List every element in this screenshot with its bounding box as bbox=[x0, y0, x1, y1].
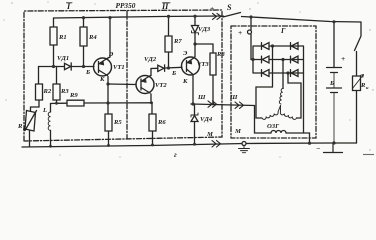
ground terminal bbox=[242, 142, 246, 146]
svg-text:н: н bbox=[366, 85, 369, 90]
wire VT1 collector junction bbox=[107, 84, 109, 103]
regulator box PP350 dash-dot border bbox=[24, 10, 222, 141]
scan speckles bbox=[3, 1, 373, 157]
bridge minus rail down bbox=[303, 73, 305, 133]
battery GB bbox=[327, 68, 342, 93]
wire VD1 row bbox=[39, 66, 95, 68]
svg-text:+: + bbox=[210, 4, 214, 13]
svg-text:R1: R1 bbox=[58, 34, 67, 41]
resistor R7 bbox=[165, 16, 172, 68]
node R8 Sh wire bbox=[212, 102, 215, 105]
label plus top bbox=[210, 4, 214, 13]
svg-text:Э: Э bbox=[109, 51, 114, 58]
diode D2 bbox=[262, 56, 270, 63]
transistor VT2 bbox=[136, 76, 154, 94]
svg-text:R6: R6 bbox=[157, 119, 166, 126]
svg-text:т: т bbox=[23, 126, 27, 131]
wire VD2 row bbox=[151, 67, 182, 68]
svg-text:VД3: VД3 bbox=[198, 26, 211, 33]
svg-text:К: К bbox=[182, 78, 188, 85]
transistor VT3 bbox=[182, 57, 200, 75]
chevron into generator bbox=[235, 102, 244, 108]
node VT1 emitter on bus bbox=[108, 16, 111, 19]
stator phase taps bbox=[256, 46, 273, 118]
wire Sh row bbox=[191, 104, 255, 106]
svg-text:+: + bbox=[238, 28, 242, 37]
thermistor Rт bbox=[31, 107, 40, 111]
zener VD3 bbox=[194, 16, 196, 25]
svg-text:РР350: РР350 bbox=[116, 1, 136, 10]
node R3 bottom bbox=[55, 102, 58, 105]
svg-text:R7: R7 bbox=[173, 38, 182, 45]
rectifier bridge frame bbox=[253, 46, 304, 73]
svg-text:Г: Г bbox=[280, 26, 286, 35]
svg-text:R9: R9 bbox=[69, 92, 78, 99]
svg-text:R8: R8 bbox=[216, 51, 225, 58]
svg-text:Б: Б bbox=[85, 69, 90, 76]
resistor R2 bbox=[36, 67, 43, 108]
diode D5 bbox=[291, 56, 299, 63]
svg-text:М: М bbox=[206, 131, 214, 138]
chevron M out regulator bbox=[212, 141, 221, 148]
svg-text:I: I bbox=[66, 2, 71, 11]
svg-text:VД2: VД2 bbox=[144, 56, 157, 63]
resistor R4 bbox=[80, 18, 87, 67]
svg-text:S: S bbox=[227, 3, 232, 12]
svg-text:Э: Э bbox=[183, 50, 188, 57]
zener VD4 bbox=[194, 104, 196, 115]
svg-text:R5: R5 bbox=[113, 119, 122, 126]
svg-text:R2: R2 bbox=[43, 88, 52, 95]
svg-text:г: г bbox=[174, 150, 177, 159]
node R4 base wire bbox=[82, 65, 85, 68]
svg-text:Б: Б bbox=[329, 80, 334, 87]
svg-text:Б: Б bbox=[171, 70, 176, 77]
resistor R6 bbox=[149, 103, 156, 145]
stator winding center coil bbox=[279, 88, 283, 104]
svg-text:VT1: VT1 bbox=[113, 64, 125, 71]
resistor R3 bbox=[53, 67, 60, 104]
chassis ground battery minus bbox=[324, 143, 343, 153]
chevron bus out regulator bbox=[213, 13, 222, 19]
diode VD2 bbox=[158, 65, 165, 72]
svg-text:VД1: VД1 bbox=[57, 55, 69, 62]
field winding OZG wire bbox=[255, 106, 272, 134]
svg-text:VД4: VД4 bbox=[200, 116, 213, 123]
transistor VT1 bbox=[94, 58, 112, 76]
node R7 VT3 base wire bbox=[167, 66, 170, 69]
node M battery bbox=[332, 141, 335, 144]
diode VD1 bbox=[65, 63, 72, 70]
resistor R5 bbox=[105, 103, 112, 146]
load switch bbox=[355, 22, 362, 76]
chevron out regulator bbox=[208, 101, 217, 107]
wire M bus bbox=[22, 143, 357, 147]
node M bus dots bbox=[49, 145, 52, 148]
stator winding right coil bbox=[280, 106, 296, 120]
label I bbox=[66, 2, 71, 11]
node bus R4 bbox=[82, 16, 85, 19]
svg-text:Ш: Ш bbox=[197, 94, 206, 101]
wire VT1.C to VT2.B bbox=[108, 83, 136, 86]
resistor R9 bbox=[67, 100, 84, 106]
label PP350 bbox=[116, 1, 136, 10]
wire bus to switch and right bbox=[242, 17, 362, 23]
svg-text:L: L bbox=[42, 107, 47, 114]
svg-text:М: М bbox=[234, 128, 242, 135]
svg-text:+: + bbox=[341, 54, 345, 63]
node R1-R3-VD1 bbox=[52, 65, 55, 68]
switch S bbox=[222, 13, 241, 18]
diode D4 bbox=[291, 43, 299, 50]
diode D1 bbox=[262, 43, 270, 50]
stator winding left coil bbox=[262, 106, 281, 120]
section divider I/II bbox=[126, 11, 128, 139]
generator plus terminal bbox=[238, 28, 242, 37]
svg-text:−: − bbox=[316, 144, 320, 153]
svg-text:R4: R4 bbox=[88, 34, 97, 41]
label II bbox=[161, 2, 169, 11]
node VT2 collector R6 bbox=[150, 101, 153, 104]
generator box dash-dot bbox=[231, 26, 316, 138]
bottom right artifact mark bbox=[363, 154, 374, 156]
label minus bbox=[316, 144, 320, 153]
resistor R1 bbox=[50, 18, 57, 67]
diode D6 bbox=[291, 70, 299, 77]
svg-text:ОЗГ: ОЗГ bbox=[267, 123, 280, 130]
wire row y103 bbox=[51, 102, 152, 105]
inductor L bbox=[50, 104, 52, 113]
resistor R8 bbox=[195, 44, 216, 104]
node R7 bus bbox=[167, 15, 170, 18]
svg-text:VT2: VT2 bbox=[155, 82, 167, 89]
svg-text:II: II bbox=[161, 2, 169, 11]
svg-text:К: К bbox=[99, 76, 105, 83]
diode D3 bbox=[262, 70, 270, 77]
variable resistor Rn bbox=[353, 76, 361, 91]
svg-text:VT3: VT3 bbox=[197, 61, 209, 68]
svg-text:R3: R3 bbox=[60, 88, 69, 95]
battery riser bbox=[333, 22, 335, 68]
wire top plus bus bbox=[54, 16, 223, 18]
label g caption bbox=[174, 150, 177, 159]
